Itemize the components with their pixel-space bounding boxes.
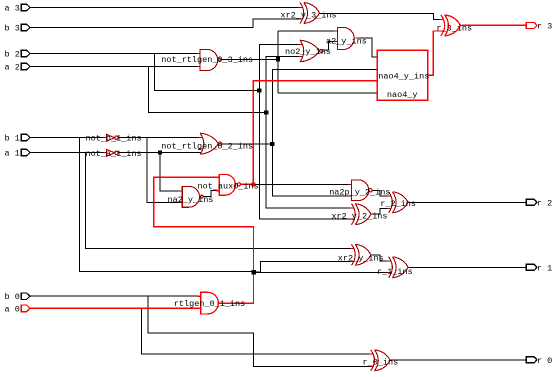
port r2 xyxy=(526,199,537,205)
svg-text:no2_y_ins: no2_y_ins xyxy=(285,47,331,57)
svg-text:b 2: b 2 xyxy=(5,49,20,59)
wire not_rtlgen_0_2 bus xyxy=(272,69,377,196)
svg-text:r_2_ins: r_2_ins xyxy=(380,199,416,209)
wire a1bar branch to na2 xyxy=(160,153,182,192)
wire a1 xyxy=(30,152,107,154)
port a3 xyxy=(21,4,30,11)
svg-text:xr2_y_ins: xr2_y_ins xyxy=(338,253,384,263)
svg-text:r_3_ins: r_3_ins xyxy=(436,24,472,34)
svg-text:r_0_ins: r_0_ins xyxy=(363,358,399,368)
junction dots xyxy=(158,57,280,274)
svg-text:r 2: r 2 xyxy=(537,198,552,208)
wire r_3 out xyxy=(462,24,527,26)
wire b1 step to xr2_y lower xyxy=(254,262,352,273)
gate a2_y (AND) xyxy=(334,28,358,50)
svg-text:rtlgen_0_1_ins: rtlgen_0_1_ins xyxy=(174,299,245,309)
wire na2 out xyxy=(203,191,219,197)
wire a3 xyxy=(30,7,301,9)
wire a0 branch to r_0 xyxy=(141,308,370,354)
svg-text:r_1_ins: r_1_ins xyxy=(377,267,413,277)
node a1bar branch xyxy=(158,150,162,154)
port a0 (red) xyxy=(21,305,30,312)
wire no2_y out xyxy=(323,42,338,51)
svg-text:a 3: a 3 xyxy=(5,3,20,13)
wire b2 xyxy=(30,53,200,55)
gate xr2_y (XOR) xyxy=(350,244,373,265)
wire b1 xyxy=(30,137,107,139)
wire b1bar branch to na2 xyxy=(147,138,182,203)
port a2 xyxy=(21,63,30,70)
wire not_b_1 out xyxy=(118,137,201,139)
gate r_3 (XOR red) xyxy=(439,15,462,36)
gate xr2_y_3 (XOR) xyxy=(299,3,320,24)
wire b2 vertical bus xyxy=(259,44,351,219)
wire na2p out xyxy=(372,190,388,196)
wire r_1 out xyxy=(410,266,527,268)
wire b1 branch down xyxy=(80,138,254,272)
wire r_2 out xyxy=(409,201,526,203)
wire xr2_y_2 out xyxy=(371,209,388,215)
gate r_2 (XOR) xyxy=(387,192,410,213)
wire xr2_y_3 out to r_3 xyxy=(319,14,441,20)
svg-text:a 2: a 2 xyxy=(5,62,20,72)
node not_rtlgen_0_3 out xyxy=(276,57,280,61)
node b2 join xyxy=(257,88,261,92)
wire b1 to r_1 lower xyxy=(254,272,389,274)
wire a2 xyxy=(30,66,200,68)
svg-text:nao4_y_ins: nao4_y_ins xyxy=(378,72,429,82)
wire a2 vertical bus xyxy=(266,56,351,208)
wire nao4 out xyxy=(428,31,441,75)
svg-text:not_rtlgen_0_2_ins: not_rtlgen_0_2_ins xyxy=(161,141,253,151)
wire a2_y out xyxy=(359,38,378,57)
gate not_a_1 (inverter) xyxy=(103,149,118,156)
svg-text:b 1: b 1 xyxy=(5,133,20,143)
svg-text:a2_y_ins: a2_y_ins xyxy=(326,37,367,47)
wire not_a_1 out xyxy=(118,152,201,154)
wire a1 branch to xr2_y xyxy=(85,153,352,249)
block nao4_y_ins xyxy=(377,50,428,100)
node b1 split xyxy=(252,270,256,274)
wire a2 branch xyxy=(149,67,267,113)
svg-text:nao4_y: nao4_y xyxy=(387,90,418,100)
svg-text:not_aux0_ins: not_aux0_ins xyxy=(198,181,259,191)
svg-text:not_a_1_ins: not_a_1_ins xyxy=(86,149,142,159)
port r3 (red) xyxy=(526,22,537,28)
node a2 join xyxy=(264,110,268,114)
gate xr2_y_2 (XOR) xyxy=(350,204,373,225)
svg-text:na2_y_ins: na2_y_ins xyxy=(168,195,214,205)
svg-text:a 0: a 0 xyxy=(5,304,20,314)
svg-text:b 3: b 3 xyxy=(5,23,20,33)
gate not_b_1 (inverter) xyxy=(103,134,118,141)
gate rtlgen_0_1 (AND red) xyxy=(197,292,223,314)
gate r_1 (XOR) xyxy=(387,257,410,278)
gate not_aux0 (NAND red) xyxy=(216,174,241,195)
wire r_0 out xyxy=(391,359,527,361)
port b0 xyxy=(21,293,30,300)
gate not_rtlgen_0_2 (NOR) xyxy=(199,133,222,154)
wire b0 xyxy=(30,295,201,297)
red wires xyxy=(30,25,526,308)
svg-text:r 3: r 3 xyxy=(537,21,552,31)
gate not_rtlgen_0_3 (NAND) xyxy=(197,49,221,70)
svg-text:r 1: r 1 xyxy=(537,263,552,273)
svg-text:not_b_1_ins: not_b_1_ins xyxy=(86,134,142,144)
wire xr2_y out xyxy=(371,255,388,261)
port r1 xyxy=(526,264,537,270)
wire a0 red xyxy=(30,307,201,309)
gate no2_y (NOR) xyxy=(299,40,323,62)
svg-text:not_rtlgen_0_3_ins: not_rtlgen_0_3_ins xyxy=(161,55,253,65)
wire b0 branch to r_0 xyxy=(148,296,371,366)
port a1 xyxy=(21,149,30,156)
gate r_0 (XOR) xyxy=(369,350,392,371)
svg-text:r 0: r 0 xyxy=(537,356,552,366)
svg-text:xr2_y_3_ins: xr2_y_3_ins xyxy=(281,11,337,21)
wire not_rtlgen_0_2 out xyxy=(222,143,273,145)
wire rtlgen_0_1 out loop xyxy=(154,177,254,303)
gate na2_y (NAND) xyxy=(179,186,203,207)
wire b2 branch xyxy=(155,54,260,91)
wire not_rtlgen_0_3 out xyxy=(220,31,377,93)
node not_aux0 red xyxy=(251,182,255,186)
port r0 xyxy=(526,357,537,363)
wire not_aux0 out red xyxy=(240,81,377,185)
port b2 xyxy=(21,50,30,57)
wire b3 xyxy=(30,19,301,28)
svg-text:b 0: b 0 xyxy=(5,292,20,302)
port b3 xyxy=(21,24,30,31)
gate na2p_y_2 (NAND) xyxy=(348,180,372,201)
wire not_aux0 out black part to na2p xyxy=(253,183,351,185)
port b1 xyxy=(21,134,30,141)
svg-text:a 1: a 1 xyxy=(5,148,20,158)
svg-text:na2p_y_2_ins: na2p_y_2_ins xyxy=(329,188,390,198)
node not_rtlgen_0_2 out xyxy=(270,142,274,146)
svg-text:xr2_y_2_ins: xr2_y_2_ins xyxy=(331,212,387,222)
